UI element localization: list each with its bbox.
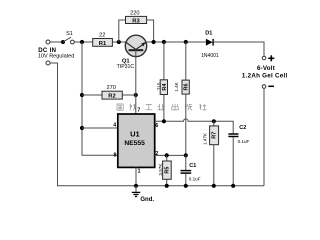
wire switch to R1 [75,41,93,43]
wire pin 1 down to bottom rail [135,167,137,185]
junction collector / R3 right [152,40,156,44]
junction C2 bottom [231,184,235,188]
junction C1 top / R6 bottom [184,153,188,157]
junction node A (top of left rail) [80,40,84,44]
capacitor C2 value 0.1uF [228,125,249,186]
wire DC+ to switch [50,41,61,43]
svg-text:R1: R1 [99,41,107,47]
svg-text:715: 715 [156,82,161,90]
wire pin 2 row [155,154,186,156]
svg-text:4: 4 [113,123,116,129]
wire R2 left leg [82,94,102,96]
diode D1 1N4001 [201,31,219,60]
junction gnd on rail [134,184,138,188]
resistor R6 value 1.4K [174,80,189,94]
resistor R2 value 270 [102,85,122,100]
svg-text:R6: R6 [184,83,190,90]
wire pin 4 row [82,127,118,129]
transistor Q1 TIP31C [117,35,147,70]
svg-text:1: 1 [138,168,141,174]
svg-text:1N4001: 1N4001 [201,53,219,59]
svg-text:10V Regulated: 10V Regulated [38,54,74,60]
junction C1 bottom [184,184,188,188]
junction R5 bottom [165,184,169,188]
wire R2 right leg [122,94,136,96]
svg-text:3.57K: 3.57K [158,163,163,176]
svg-text:270: 270 [107,85,116,91]
wire DC- down left side to bottom rail [50,63,264,186]
wire D1 to battery + [214,42,264,56]
svg-text:8: 8 [114,153,117,159]
watermark text [117,104,207,111]
resistor R7 value 1.47K [203,121,219,186]
wire R6 upper leg [185,42,187,80]
wire R6 lower leg down to pin2 row [185,94,187,155]
svg-text:R4: R4 [162,83,168,91]
node DC+ input terminal [46,40,50,44]
junction R4 top [162,40,166,44]
svg-text:1.4K: 1.4K [174,81,179,91]
svg-text:7: 7 [137,107,140,113]
resistor R5 value 3.57K [158,155,171,185]
minus sign [268,85,274,87]
plus sign [268,55,274,61]
wire left rail vertical (node A down to pin 8) [82,42,118,155]
junction R7 top [212,119,216,123]
wire Q1 base lead down to pin 7 [135,50,137,115]
svg-text:6: 6 [155,123,158,129]
svg-text:1.2Ah Gel Cell: 1.2Ah Gel Cell [242,72,288,79]
junction pin4 row [80,126,84,130]
wire R1 to Q1 base-side [112,41,125,43]
junction at R3 left leg [117,40,121,44]
svg-text:NE555: NE555 [124,140,145,147]
junction R4 bottom / pin6 [162,119,166,123]
svg-text:D1: D1 [205,31,212,37]
svg-text:0.1uF: 0.1uF [238,139,250,144]
wire R4 lower leg to pin6 row [163,95,165,122]
svg-text:Gnd.: Gnd. [140,197,154,203]
resistor R1 value 22 [93,33,113,47]
svg-text:C1: C1 [189,163,196,169]
junction R5 top [165,153,169,157]
junction R6 top [184,40,188,44]
svg-text:R5: R5 [164,167,170,174]
svg-text:C2: C2 [239,125,246,131]
svg-text:TIP31C: TIP31C [117,64,135,70]
wire R3 left leg [119,20,126,42]
svg-text:U1: U1 [130,130,140,139]
svg-text:S1: S1 [66,31,73,37]
resistor R4 value 715 [156,80,168,95]
junction Q1 base / pin7 [134,93,138,97]
wire battery - down to bottom rail [263,88,265,186]
wire R3 right leg [147,20,154,42]
node DC- input terminal [46,61,50,65]
svg-text:22: 22 [99,33,105,39]
svg-text:2: 2 [155,151,158,157]
svg-text:0.1uF: 0.1uF [189,176,201,181]
capacitor C1 value 0.1uF [181,155,201,185]
svg-text:220: 220 [130,10,139,16]
wire pin 6 row with hop over R6 net [155,119,234,134]
switch S1 [61,31,74,44]
svg-text:R7: R7 [212,132,218,139]
ground symbol [132,186,155,203]
node battery + terminal [262,56,266,60]
svg-text:1.47K: 1.47K [203,132,208,145]
svg-text:6-Volt: 6-Volt [257,65,275,72]
wire Q1 collector node across top [147,41,206,43]
node battery - terminal [262,85,266,89]
resistor R3 value 220 [126,10,147,24]
svg-text:R3: R3 [132,18,140,24]
svg-text:R2: R2 [108,94,115,100]
junction R7 bottom [212,184,216,188]
op-amp U1 NE555 body [118,114,155,167]
wire R4 upper leg [163,42,165,80]
junction R2 left [80,93,84,97]
